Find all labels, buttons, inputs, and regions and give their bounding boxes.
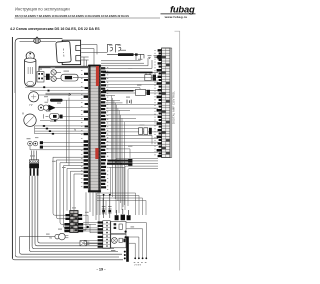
arrow cable	[46, 93, 89, 96]
bus bar drops	[146, 72, 158, 78]
row C glow plug	[44, 113, 89, 119]
svg-text:ГУ: ГУ	[30, 103, 33, 107]
strip right number labels	[107, 67, 109, 190]
board connector ladder	[103, 221, 110, 248]
wires under relays	[25, 87, 89, 90]
relay box mid	[136, 89, 151, 95]
extra row wire	[40, 120, 89, 122]
output bus	[107, 53, 144, 60]
output drop wires	[126, 223, 146, 258]
connector circles CN1	[51, 70, 56, 82]
housing notch lower	[76, 56, 81, 61]
figure right border (gray)	[175, 31, 180, 270]
red mark lower	[95, 148, 98, 159]
X2 right-out wires	[83, 215, 102, 231]
strip mid rungs extra	[91, 68, 99, 191]
bracket to strip wires	[81, 57, 89, 66]
mid bus 2	[103, 90, 134, 92]
feed lines from mid	[97, 193, 146, 215]
ladder left stubs	[157, 49, 162, 157]
black bar Q	[126, 236, 129, 261]
svg-text:- 19 -: - 19 -	[96, 267, 106, 272]
sensor circles row	[28, 141, 38, 146]
controller outline	[170, 48, 172, 158]
wires above switch	[31, 151, 36, 160]
switch harness down	[29, 176, 38, 249]
earth terminals	[148, 56, 158, 59]
logo underline	[161, 13, 196, 15]
ladder rungs	[162, 51, 170, 155]
strip rungs	[88, 69, 100, 189]
svg-text:DIGITAL AMF CONTROL: DIGITAL AMF CONTROL	[172, 91, 176, 124]
CT coil 2	[116, 44, 121, 52]
battery symbol mid	[127, 100, 131, 104]
top wire	[20, 41, 56, 43]
X2 right stubs	[78, 214, 83, 232]
figure left border	[11, 37, 13, 259]
strip bottom drop wires	[64, 192, 99, 230]
red mark upper	[96, 66, 99, 86]
heavy bus bar	[103, 72, 153, 74]
wires relay row to strip	[44, 72, 89, 78]
board connector stubs	[98, 221, 103, 247]
strip right stubs	[101, 67, 106, 188]
wires into board connector	[83, 223, 97, 244]
header rule	[15, 17, 161, 19]
relay coil pair	[102, 195, 112, 219]
assorted tiny component labels	[27, 45, 145, 251]
heavy cable bar 2	[107, 163, 129, 165]
fuse F (hatched ellipse)	[34, 37, 41, 44]
down bundle middle	[109, 96, 152, 208]
engine top double line	[39, 66, 89, 72]
strip terminal number labels	[81, 70, 83, 190]
board lower box	[111, 234, 126, 248]
thick stubs below switch	[30, 168, 37, 176]
rows D-G wires	[35, 126, 89, 134]
aux vertical wire	[67, 98, 69, 166]
housing notch upper	[76, 45, 81, 50]
strip bottom cap	[88, 190, 100, 192]
svg-text:Инструкция по эксплуатации: Инструкция по эксплуатации	[15, 7, 70, 12]
small box with X	[80, 241, 89, 246]
relay contact boxes row	[139, 128, 152, 135]
fubag logo	[170, 3, 195, 14]
voltmeter P2	[22, 112, 36, 127]
relay K1 box	[37, 72, 44, 82]
alternator output wires	[81, 45, 107, 65]
svg-text:fubag: fubag	[170, 3, 195, 14]
X2 left stubs	[64, 214, 69, 232]
alternator housing	[62, 40, 80, 64]
svg-text:V: V	[22, 112, 24, 116]
alternator G1	[56, 41, 71, 63]
CT coil 1	[107, 44, 112, 52]
svg-text:DS 5,5 DA ES/DS 7 DA ES/DS 10: DS 5,5 DA ES/DS 7 DA ES/DS 10 DA ES/DS 1…	[15, 14, 129, 18]
wires to right ladder top	[101, 58, 152, 68]
heavy cable bar 1	[108, 160, 129, 162]
svg-text:www.fubag.ru: www.fubag.ru	[164, 15, 188, 19]
output labels	[134, 261, 147, 263]
gauge P1 (hour meter)	[28, 92, 38, 107]
svg-text:4.2 Схема электрическая DS 16: 4.2 Схема электрическая DS 16 DA ES, DS …	[10, 27, 100, 31]
battery GB	[25, 52, 36, 87]
fuel pump M	[50, 233, 69, 240]
sensor wires	[30, 143, 89, 150]
strip left stubs	[84, 73, 89, 189]
board upper box	[111, 221, 126, 233]
relay box right	[145, 75, 151, 81]
row A sender	[39, 95, 89, 102]
engine box frame	[15, 39, 62, 93]
board caps row	[115, 215, 131, 221]
ignition switch block	[29, 160, 39, 169]
svg-text:U V W N: U V W N	[134, 265, 142, 267]
pump feed wire	[20, 237, 55, 252]
fuel solenoid Y1	[61, 74, 78, 81]
row B horn	[38, 105, 89, 111]
ladder terminal labels	[154, 50, 156, 156]
X2 incoming nested corners from strip	[53, 157, 84, 228]
black module	[46, 74, 50, 80]
left frame inner drop	[14, 93, 16, 255]
ladder dark cells	[162, 56, 170, 154]
